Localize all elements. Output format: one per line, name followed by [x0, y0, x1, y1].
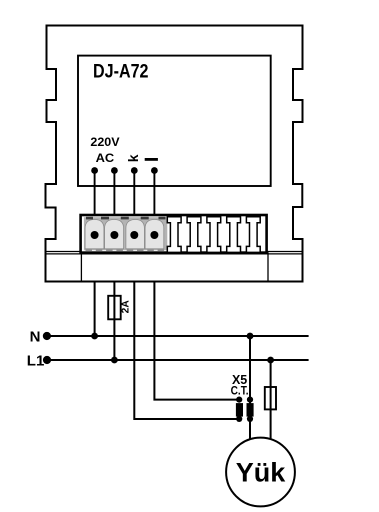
svg-text:220V: 220V: [90, 135, 119, 149]
svg-text:Yük: Yük: [236, 458, 287, 488]
svg-text:2A: 2A: [120, 300, 131, 314]
svg-text:AC: AC: [96, 151, 115, 165]
svg-text:C.T.: C.T.: [231, 386, 249, 398]
svg-text:DJ-A72: DJ-A72: [93, 61, 149, 82]
svg-text:L1: L1: [27, 352, 45, 369]
svg-text:N: N: [30, 328, 41, 345]
svg-text:k: k: [125, 154, 141, 162]
